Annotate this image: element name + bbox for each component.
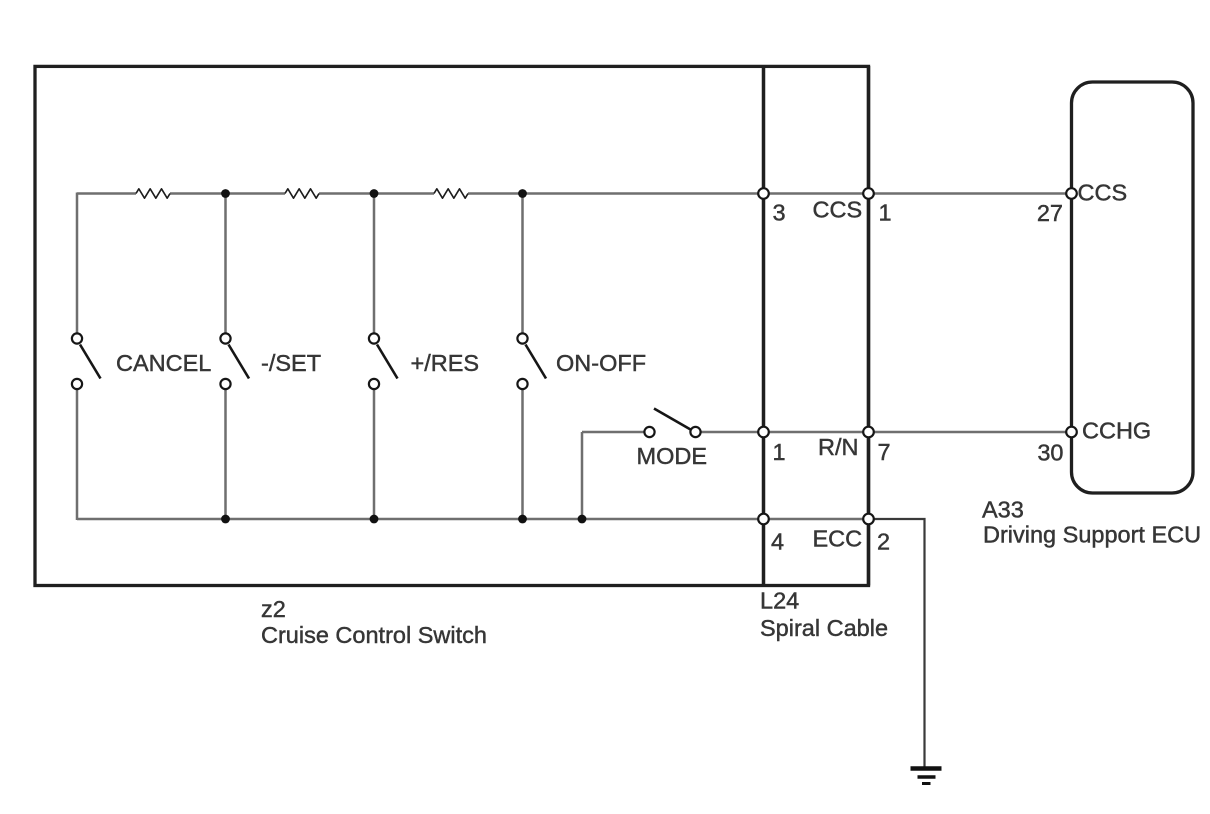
svg-text:CCS: CCS — [813, 197, 863, 223]
svg-text:z2: z2 — [261, 596, 286, 622]
junction dot bottom rail branch 3 — [370, 515, 379, 524]
resistor R2 — [285, 189, 319, 198]
svg-text:+/RES: +/RES — [411, 350, 480, 376]
junction dot top rail branch 4 — [518, 189, 527, 198]
svg-text:1: 1 — [879, 200, 892, 226]
cruise control switch box z2 — [35, 66, 869, 585]
svg-text:ECC: ECC — [813, 526, 863, 552]
svg-text:CCHG: CCHG — [1082, 418, 1151, 444]
ground — [911, 769, 942, 784]
terminal pin 4 spiral cable ECC — [758, 514, 769, 525]
ECU connector A33 box — [1072, 82, 1194, 493]
terminal pin 1 spiral cable R/N — [758, 427, 769, 438]
wire branch 4 lower — [521, 388, 524, 519]
spiral cable right boundary line — [867, 66, 871, 586]
terminal pin 27 ECU CCS — [1066, 188, 1077, 199]
svg-text:2: 2 — [877, 529, 890, 555]
junction dot bottom rail branch 4 — [518, 515, 527, 524]
junction dot top rail branch 3 — [370, 189, 379, 198]
svg-text:-/SET: -/SET — [261, 350, 321, 376]
terminal pin 3 spiral cable CCS — [758, 188, 769, 199]
resistor R3 — [434, 189, 468, 198]
spiral cable left boundary line — [762, 66, 766, 586]
switch +/RES — [369, 333, 398, 389]
svg-text:7: 7 — [878, 439, 891, 465]
svg-text:30: 30 — [1037, 440, 1063, 466]
junction dot bottom rail MODE branch — [578, 515, 587, 524]
svg-text:3: 3 — [773, 200, 786, 226]
wire branch 2 upper — [224, 194, 227, 335]
svg-text:ON-OFF: ON-OFF — [556, 350, 646, 376]
switch CANCEL — [72, 333, 101, 389]
svg-text:L24: L24 — [760, 588, 799, 614]
wire ECC terminal 2 to ground — [869, 519, 925, 768]
junction dot top rail branch 2 — [221, 189, 230, 198]
wire branch 4 upper — [521, 194, 524, 335]
terminal pin 1 spiral cable CCS — [863, 188, 874, 199]
terminal pin 30 ECU CCHG — [1066, 427, 1077, 438]
svg-text:CANCEL: CANCEL — [116, 350, 211, 376]
svg-text:Driving Support ECU: Driving Support ECU — [983, 522, 1201, 548]
wire MODE row R/N — [582, 431, 1072, 434]
svg-text:Cruise Control Switch: Cruise Control Switch — [261, 622, 487, 648]
junction dot bottom rail branch 2 — [221, 515, 230, 524]
switch -/SET — [220, 333, 249, 389]
wire branch 3 upper — [373, 194, 376, 335]
resistor R1 — [136, 189, 170, 198]
svg-text:27: 27 — [1037, 200, 1063, 226]
wire bottom rail ECC row to ground corner — [77, 518, 869, 521]
wire MODE branch drop — [581, 432, 584, 519]
switch MODE — [644, 409, 700, 438]
svg-text:A33: A33 — [982, 497, 1024, 523]
svg-text:1: 1 — [773, 439, 786, 465]
wire branch 3 lower — [373, 388, 376, 519]
wire top rail CCS row — [77, 192, 1072, 195]
svg-text:4: 4 — [771, 529, 784, 555]
wire branch 1 lower — [76, 388, 79, 520]
wire branch 2 lower — [224, 388, 227, 519]
terminal pin 7 spiral cable R/N — [863, 427, 874, 438]
wire branch 1 upper — [76, 193, 79, 335]
svg-text:Spiral Cable: Spiral Cable — [760, 615, 888, 641]
terminal pin 2 spiral cable ECC — [863, 514, 874, 525]
switch ON-OFF — [517, 333, 546, 389]
svg-text:CCS: CCS — [1078, 180, 1128, 206]
svg-text:R/N: R/N — [818, 434, 858, 460]
svg-text:MODE: MODE — [637, 443, 708, 469]
